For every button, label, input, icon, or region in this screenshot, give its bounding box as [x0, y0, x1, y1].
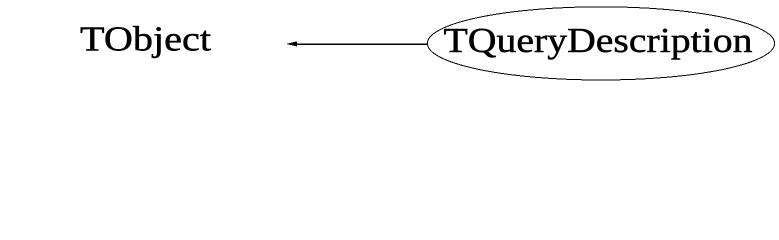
svg-text:TObject: TObject [80, 19, 211, 58]
svg-text:TQueryDescription: TQueryDescription [444, 21, 753, 60]
